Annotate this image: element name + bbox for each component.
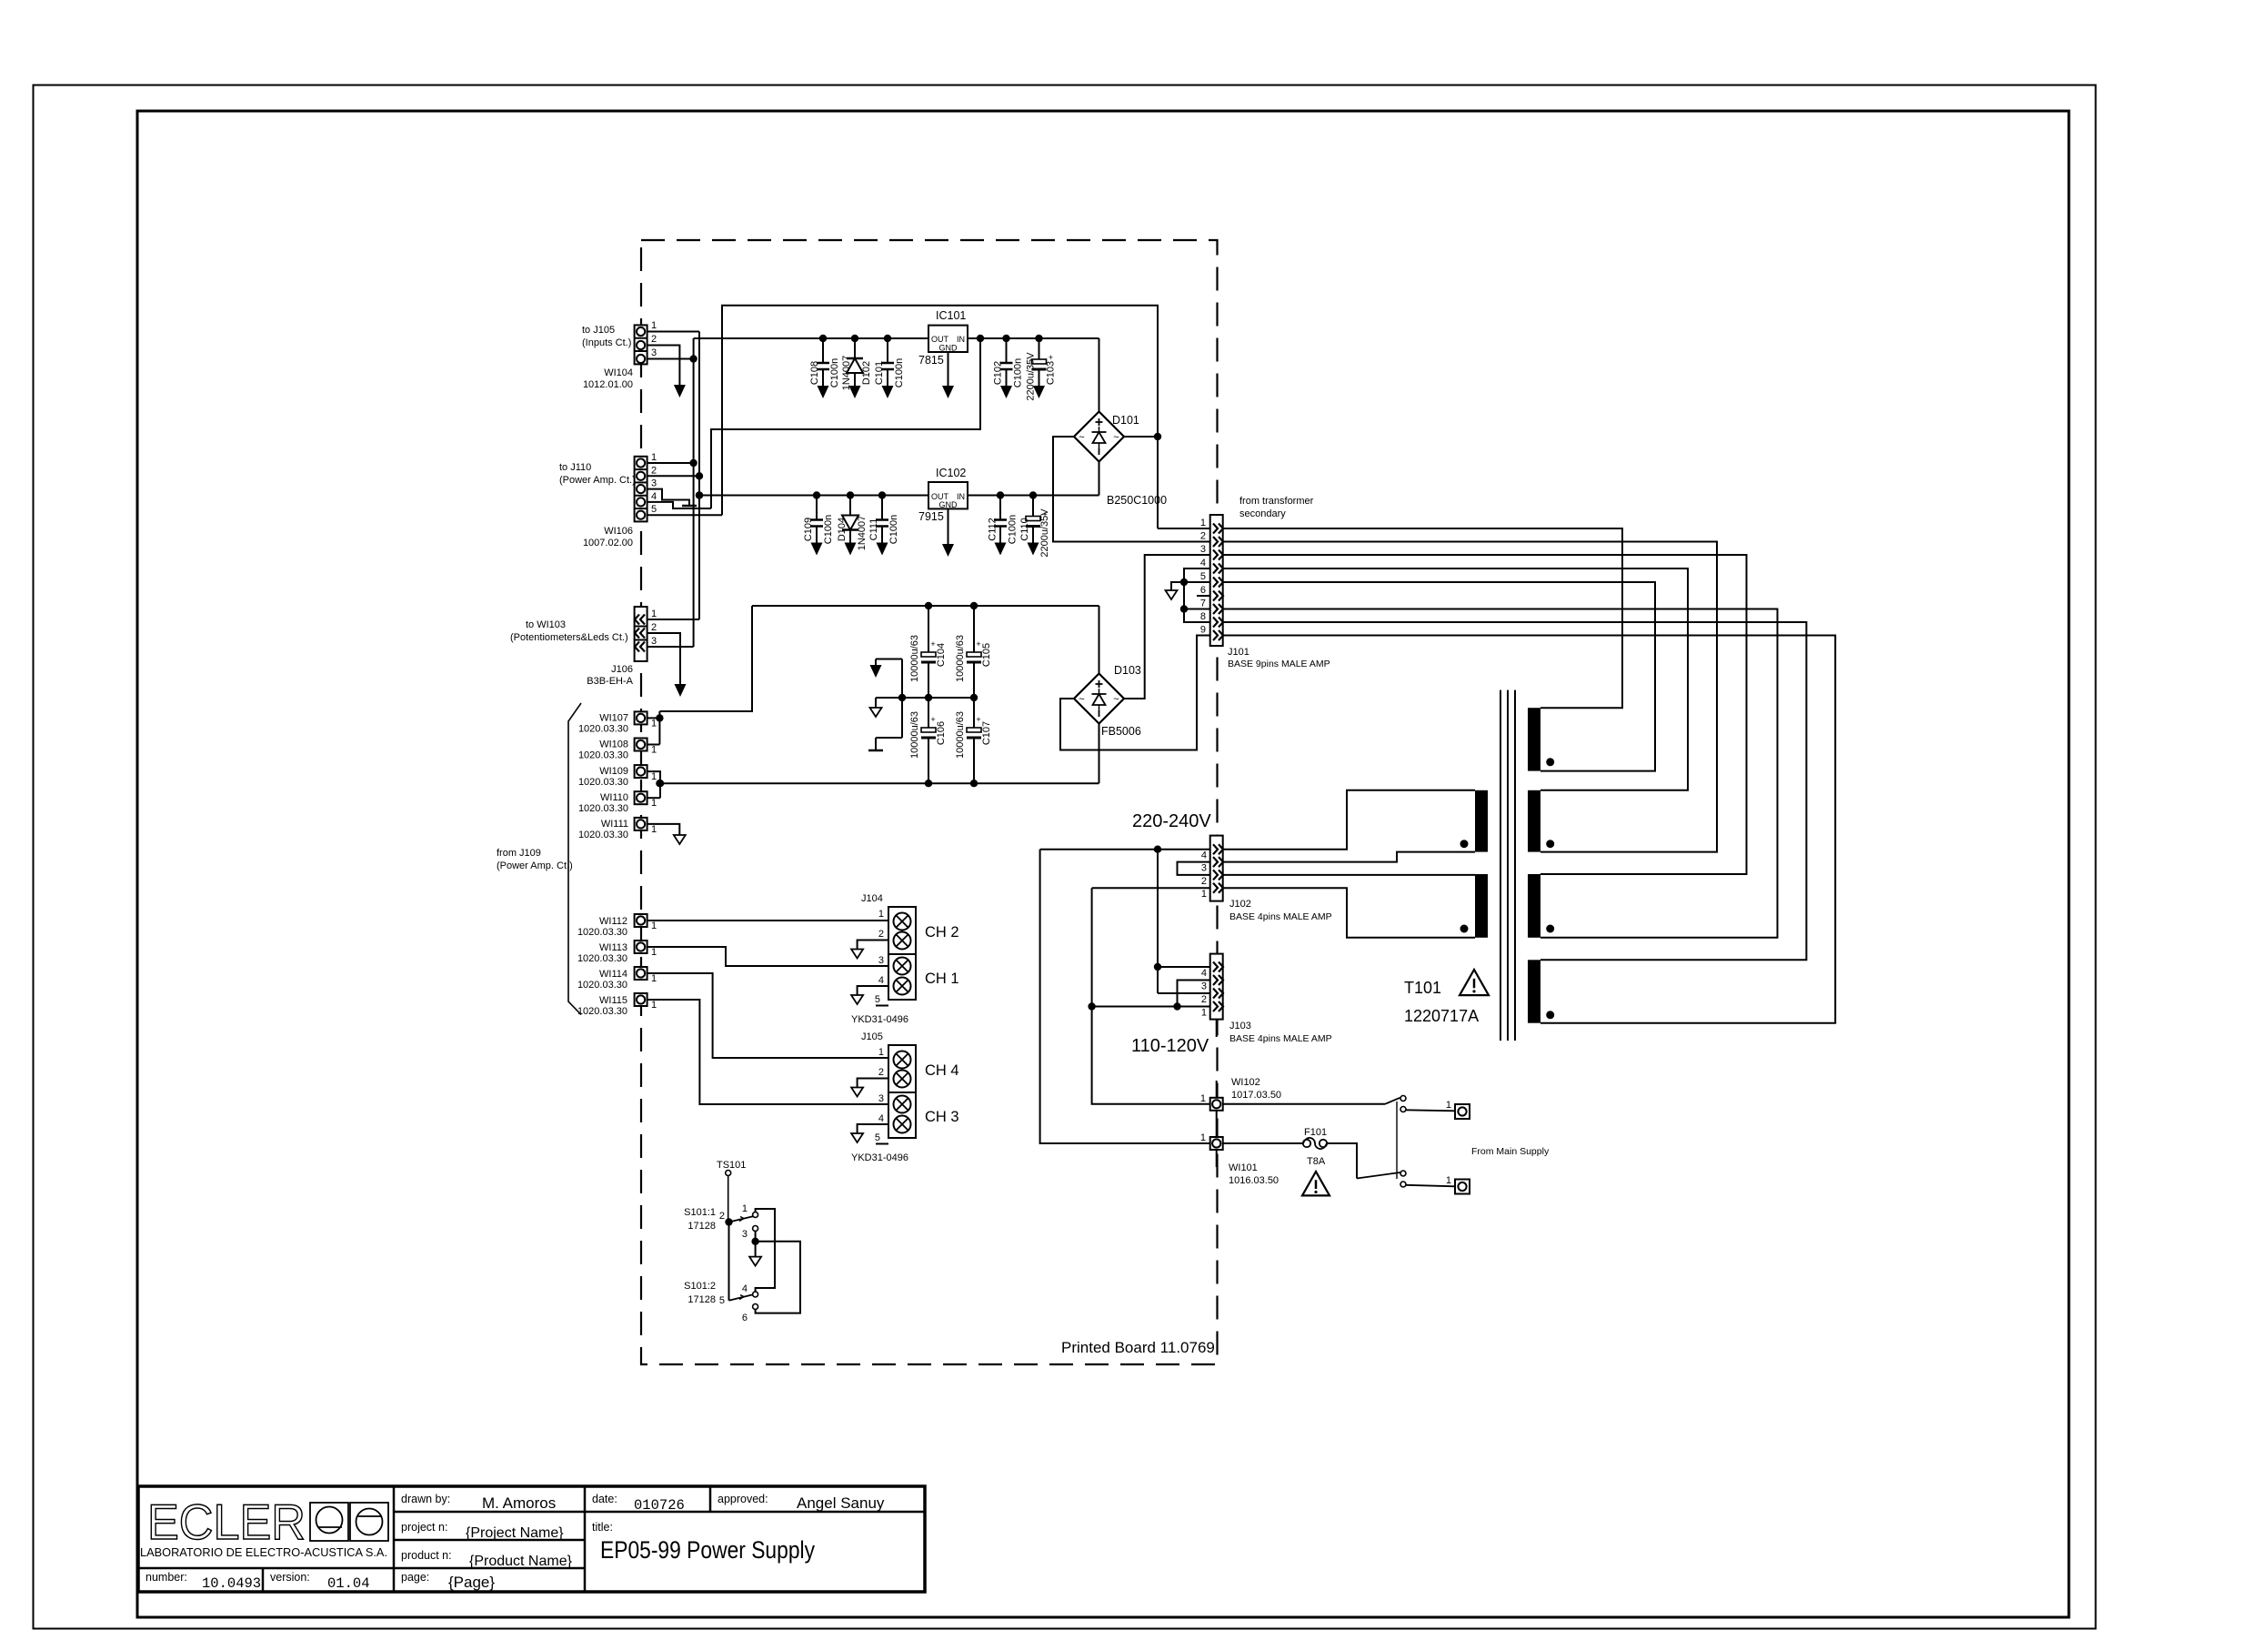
svg-text:+: + xyxy=(1049,353,1053,362)
svg-text:1: 1 xyxy=(651,973,657,984)
svg-text:J105: J105 xyxy=(861,1031,883,1042)
capacitor C105 10000u/63 xyxy=(973,606,975,656)
svg-text:5: 5 xyxy=(875,994,880,1005)
transformer T101 core xyxy=(1500,690,1501,1041)
title block frame xyxy=(138,1486,925,1592)
svg-text:1: 1 xyxy=(651,452,657,463)
svg-text:4: 4 xyxy=(878,1113,884,1124)
connector WI111 1020.03.30 xyxy=(635,818,647,830)
svg-text:10000u/63: 10000u/63 xyxy=(955,635,966,682)
svg-text:C104: C104 xyxy=(936,643,947,667)
wire J105 pin5 stub xyxy=(876,1143,888,1145)
connector WI108 1020.03.30 xyxy=(635,739,647,751)
ground open arrow WI111 xyxy=(674,835,686,844)
wire J102 pin3-pin2 loop xyxy=(1178,862,1210,875)
wire WI112 to J104 pin1 xyxy=(647,920,888,921)
connector J103 BASE 4pins MALE AMP xyxy=(1210,954,1223,1020)
svg-text:BASE 9pins MALE AMP: BASE 9pins MALE AMP xyxy=(1228,659,1330,669)
svg-text:EP05-99 Power Supply: EP05-99 Power Supply xyxy=(600,1536,815,1564)
junction dot J102 pin4 selector xyxy=(1154,846,1161,853)
transformer T101 secondary winding R4 xyxy=(1528,960,1540,1022)
connector WI109 1020.03.30 xyxy=(635,765,647,778)
svg-text:8: 8 xyxy=(1200,611,1206,622)
ground arrow IC102 xyxy=(942,544,954,557)
svg-text:3: 3 xyxy=(742,1229,748,1240)
svg-text:C109: C109 xyxy=(803,518,814,541)
wire J104 pin2 to ground xyxy=(858,941,888,951)
svg-text:approved:: approved: xyxy=(718,1493,768,1505)
warning triangle T101 xyxy=(1460,970,1489,995)
svg-text:2: 2 xyxy=(1201,994,1207,1005)
wire S101 junction to ground xyxy=(755,1242,757,1256)
svg-text:{Page}: {Page} xyxy=(448,1574,495,1591)
junction dots top bus xyxy=(925,602,932,609)
capacitor C110 2200u/35V xyxy=(1032,496,1034,520)
connector WI104 (to J105) xyxy=(635,325,647,364)
svg-text:C100n: C100n xyxy=(829,358,840,387)
capacitor C107 10000u/63 xyxy=(973,698,975,731)
svg-text:Angel Sanuy: Angel Sanuy xyxy=(797,1494,885,1512)
wire J101 pin3 to transformer R3 top xyxy=(1223,555,1747,874)
switch S101:1 17128 xyxy=(725,1218,732,1225)
transformer T101 primary winding L2 xyxy=(1475,874,1488,938)
svg-text:10.0493: 10.0493 xyxy=(202,1575,261,1592)
wire J104 pin5 stub xyxy=(876,1005,888,1007)
junction dot S101 contact3 xyxy=(751,1238,758,1245)
svg-text:J101: J101 xyxy=(1228,647,1249,658)
svg-text:3: 3 xyxy=(1201,863,1207,874)
junction dots mid bus xyxy=(898,694,906,701)
svg-text:WI104: WI104 xyxy=(604,367,633,378)
junction dot WI106 pin1 xyxy=(689,459,697,467)
svg-text:secondary: secondary xyxy=(1239,508,1286,519)
polarity dot R4 xyxy=(1546,1011,1554,1019)
svg-text:GND: GND xyxy=(939,500,958,509)
junction dot WI107 xyxy=(656,714,663,721)
wire D103 AC right to J101 pin3 xyxy=(1124,555,1210,699)
svg-text:WI112: WI112 xyxy=(599,916,627,927)
wire S101 contact1 to contact4 loop xyxy=(756,1209,775,1292)
svg-text:C110: C110 xyxy=(1019,518,1030,540)
svg-text:J106: J106 xyxy=(611,664,633,675)
capacitor C101 100n xyxy=(887,338,888,363)
svg-text:4: 4 xyxy=(742,1283,748,1294)
svg-text:IC102: IC102 xyxy=(936,467,966,479)
wire J101 pin4/pin8 bracket xyxy=(1184,568,1210,622)
svg-text:1020.03.30: 1020.03.30 xyxy=(578,723,628,734)
svg-text:CH 4: CH 4 xyxy=(925,1062,959,1079)
junction dot D101 AC right xyxy=(1154,433,1161,440)
wire WI107 net to cap bank top bus xyxy=(659,606,752,711)
svg-text:2: 2 xyxy=(1200,531,1206,542)
wire J105 pin2 to ground xyxy=(858,1079,888,1090)
svg-text:1020.03.30: 1020.03.30 xyxy=(577,953,627,964)
svg-text:C100n: C100n xyxy=(823,515,834,544)
svg-text:J104: J104 xyxy=(861,893,883,904)
svg-text:3: 3 xyxy=(1200,544,1206,555)
capacitor C103 2200u/35V xyxy=(1039,338,1040,363)
svg-text:4: 4 xyxy=(1201,850,1207,861)
svg-text:~: ~ xyxy=(1113,694,1119,705)
junction dot J103 pin4 xyxy=(1154,963,1161,971)
wire WI102 to mains switch xyxy=(1223,1103,1385,1105)
svg-text:4: 4 xyxy=(1201,968,1207,979)
wire IC102 GND to ground xyxy=(948,508,949,544)
svg-text:1020.03.30: 1020.03.30 xyxy=(577,980,627,991)
wire WI114 to J105 pin1 xyxy=(647,973,888,1058)
svg-text:110-120V: 110-120V xyxy=(1131,1036,1209,1056)
printed board dashed outline 11.0769 xyxy=(641,240,1218,1364)
svg-text:page:: page: xyxy=(401,1571,429,1584)
svg-text:1: 1 xyxy=(1200,518,1206,528)
svg-text:TS101: TS101 xyxy=(717,1160,746,1171)
wire WI106 pin3 to signal ground xyxy=(647,489,689,506)
svg-text:S101:2: S101:2 xyxy=(684,1281,716,1292)
ground open arrow S101 xyxy=(749,1257,761,1266)
wire J101 pin9 to transformer R4 bottom xyxy=(1223,636,1836,1023)
svg-text:3: 3 xyxy=(878,1093,884,1104)
svg-text:1: 1 xyxy=(651,718,657,729)
svg-text:1N4007: 1N4007 xyxy=(841,356,852,391)
svg-text:5: 5 xyxy=(719,1295,725,1306)
svg-text:C100n: C100n xyxy=(1013,358,1024,387)
wire J101 pin4 to transformer R2 top xyxy=(1223,568,1688,790)
svg-text:+: + xyxy=(930,639,935,649)
ground open arrow J101 pin5 xyxy=(1166,590,1178,599)
mains switch lower pole xyxy=(1357,1172,1400,1179)
polarity dot L1 xyxy=(1460,840,1469,848)
svg-text:+: + xyxy=(976,715,980,724)
svg-text:17128: 17128 xyxy=(687,1221,716,1232)
switch S101:2 17128 xyxy=(728,1222,730,1301)
svg-text:C107: C107 xyxy=(981,721,992,745)
svg-text:C111: C111 xyxy=(868,518,879,541)
svg-text:IN: IN xyxy=(957,335,965,344)
svg-text:(Power Amp. Ct.): (Power Amp. Ct.) xyxy=(497,860,573,871)
svg-text:2: 2 xyxy=(651,465,657,476)
svg-text:17128: 17128 xyxy=(687,1294,716,1305)
wire J101 pin6 stub xyxy=(1197,595,1210,597)
svg-text:1007.02.00: 1007.02.00 xyxy=(583,538,633,548)
junction dots J103 pin1 net xyxy=(1173,1002,1180,1010)
wire WI104 pin1 to -V net xyxy=(647,331,699,333)
svg-text:10000u/63: 10000u/63 xyxy=(955,711,966,759)
svg-text:1: 1 xyxy=(1201,1008,1207,1019)
transformer T101 secondary winding R1 xyxy=(1528,708,1540,770)
svg-text:1: 1 xyxy=(651,609,657,619)
svg-text:1: 1 xyxy=(651,921,657,931)
ground open arrow J104 pin2 xyxy=(851,950,863,959)
svg-text:to WI103: to WI103 xyxy=(526,619,566,630)
wire WI108 pin xyxy=(647,744,660,746)
svg-text:3: 3 xyxy=(878,955,884,966)
wire mid-bus ground branch xyxy=(901,659,903,739)
svg-text:1020.03.30: 1020.03.30 xyxy=(577,1006,627,1017)
svg-text:10000u/63: 10000u/63 xyxy=(909,711,920,759)
wire J101 pin5 to ground xyxy=(1171,582,1210,591)
wire stub below WI101 xyxy=(1216,1150,1218,1167)
fuse F101 T8A xyxy=(1303,1140,1310,1147)
svg-text:WI113: WI113 xyxy=(599,942,627,953)
svg-text:1: 1 xyxy=(651,745,657,756)
voltage regulator IC101 7815 xyxy=(928,326,968,352)
svg-text:1: 1 xyxy=(878,1047,884,1058)
svg-text:1: 1 xyxy=(651,771,657,782)
wire J105 pin4 to ground xyxy=(858,1124,888,1135)
wire S101 contact3 to junction xyxy=(755,1232,757,1242)
svg-text:(Inputs Ct.): (Inputs Ct.) xyxy=(582,337,631,348)
wire J103 pin1 xyxy=(1092,1006,1210,1008)
wire J101 pin8 to transformer R4 top xyxy=(1223,622,1807,960)
bridge rectifier D103 FB5006 xyxy=(1074,674,1124,724)
svg-text:(Potentiometers&Leds Ct.): (Potentiometers&Leds Ct.) xyxy=(510,632,628,643)
svg-text:BASE 4pins MALE AMP: BASE 4pins MALE AMP xyxy=(1229,911,1332,922)
svg-text:10000u/63: 10000u/63 xyxy=(909,635,920,682)
svg-text:C100n: C100n xyxy=(1008,515,1019,544)
wire D101 plus feed xyxy=(1099,338,1100,412)
svg-text:M. Amoros: M. Amoros xyxy=(482,1494,556,1512)
svg-text:1220717A: 1220717A xyxy=(1404,1007,1479,1025)
svg-text:From Main Supply: From Main Supply xyxy=(1471,1146,1550,1157)
svg-text:1: 1 xyxy=(651,824,657,835)
mains switch link xyxy=(1396,1102,1398,1179)
svg-text:1020.03.30: 1020.03.30 xyxy=(578,803,628,814)
junction dot WI109 net xyxy=(657,780,664,787)
svg-text:4: 4 xyxy=(651,491,657,502)
svg-text:3: 3 xyxy=(651,347,657,358)
svg-text:2: 2 xyxy=(651,334,657,345)
wire D103 AC left to J101 pin9 xyxy=(1060,636,1210,750)
connector WI112 1020.03.30 xyxy=(635,914,647,927)
svg-text:drawn by:: drawn by: xyxy=(401,1493,450,1505)
capacitor C112 100n xyxy=(999,496,1001,520)
transformer T101 secondary winding R3 xyxy=(1528,874,1540,938)
connector WI102 1017.03.50 xyxy=(1210,1098,1223,1111)
svg-text:4: 4 xyxy=(878,975,884,986)
svg-text:from transformer: from transformer xyxy=(1239,496,1314,507)
wire J102 pin1 selector xyxy=(1092,887,1210,889)
terminal block J104 YKD31-0496 xyxy=(888,907,916,954)
svg-text:{Project Name}: {Project Name} xyxy=(466,1525,564,1541)
wire J101 pin1 to transformer R1 top xyxy=(1223,528,1622,708)
svg-text:WI106: WI106 xyxy=(604,526,633,537)
svg-text:5: 5 xyxy=(875,1132,880,1143)
svg-text:J102: J102 xyxy=(1229,899,1251,910)
ground arrow IC101 xyxy=(942,386,954,398)
bracket from J109 (Power Amp. Ct.) xyxy=(568,703,581,1015)
wire WI115 to J105 pin3 xyxy=(647,1000,888,1104)
svg-text:CH 1: CH 1 xyxy=(925,971,959,987)
wire fuse to mains switch lower pole xyxy=(1327,1143,1357,1179)
svg-text:~: ~ xyxy=(1079,432,1084,443)
svg-text:D101: D101 xyxy=(1112,414,1139,427)
wire WI113 to J104 pin3 xyxy=(647,947,888,966)
svg-text:B250C1000: B250C1000 xyxy=(1107,494,1167,507)
svg-text:D103: D103 xyxy=(1114,664,1141,677)
vertical net x=762.6 xyxy=(693,338,695,647)
connector WI106 (to J110) xyxy=(635,457,647,522)
svg-text:01.04: 01.04 xyxy=(327,1575,370,1592)
svg-text:date:: date: xyxy=(592,1493,617,1505)
svg-text:WI109: WI109 xyxy=(599,766,628,777)
svg-text:7: 7 xyxy=(1200,599,1206,609)
svg-text:2: 2 xyxy=(1201,876,1207,887)
wire cap bank bottom bus xyxy=(659,782,1099,784)
signal ground bar on cap bank lower xyxy=(875,738,877,750)
wire J104 pin4 to ground xyxy=(858,986,888,997)
junction dots J101 pin5 pin7 xyxy=(1180,579,1188,586)
svg-text:1: 1 xyxy=(1200,1093,1206,1104)
inner sheet border xyxy=(137,111,2069,1617)
svg-text:2: 2 xyxy=(719,1211,725,1222)
wire WI106 pin5 xyxy=(647,514,722,516)
ground open arrow J105 pin4 xyxy=(851,1133,863,1142)
transformer T101 secondary winding R2 xyxy=(1528,790,1540,852)
svg-text:WI114: WI114 xyxy=(599,969,627,980)
ground open arrow J105 pin2 xyxy=(851,1088,863,1097)
wire selector vertical x=1143.6 to WI101 xyxy=(1040,850,1210,1143)
connector WI110 1020.03.30 xyxy=(635,791,647,804)
capacitor C102 100n xyxy=(1006,338,1008,363)
svg-text:1020.03.30: 1020.03.30 xyxy=(577,927,627,938)
svg-text:6: 6 xyxy=(742,1313,748,1323)
wire J102 pin2 to L2 top xyxy=(1223,874,1475,876)
wire WI106 pin4 xyxy=(647,502,711,508)
svg-text:2: 2 xyxy=(878,929,884,940)
diode D102 1N4007 xyxy=(854,338,856,358)
wire J101 pin5 to transformer R1 bottom xyxy=(1223,582,1655,771)
wire D101 minus to IC102 rail xyxy=(1099,462,1100,496)
title block vertical dividers xyxy=(393,1486,396,1592)
wire S101 contact3 to contact6 loop xyxy=(756,1242,800,1313)
polarity dot L2 xyxy=(1460,925,1469,933)
wire loop WI106 pin4 to IN rail xyxy=(711,338,980,508)
svg-text:product n:: product n: xyxy=(401,1549,452,1562)
mains terminal lower xyxy=(1455,1180,1470,1194)
svg-text:C102: C102 xyxy=(993,361,1004,385)
wire WI107 pin to junction xyxy=(647,717,660,719)
svg-text:D102: D102 xyxy=(861,361,872,385)
svg-text:1: 1 xyxy=(651,1000,657,1011)
wire D101 AC left to J101 pin2 xyxy=(1053,437,1210,542)
wire selector vertical x=1200.6 to WI102 xyxy=(1092,888,1210,1104)
svg-text:~: ~ xyxy=(1079,694,1084,705)
wire WI111 pin to ground xyxy=(647,824,680,835)
svg-text:3: 3 xyxy=(651,636,657,647)
svg-text:J103: J103 xyxy=(1229,1021,1251,1031)
svg-text:1: 1 xyxy=(878,909,884,920)
svg-text:1: 1 xyxy=(1446,1100,1451,1111)
svg-text:7915: 7915 xyxy=(918,510,944,523)
wire J106 pin1 xyxy=(647,619,699,620)
svg-text:1N4007: 1N4007 xyxy=(857,516,868,551)
svg-text:5: 5 xyxy=(651,504,657,515)
wire J102 pin4 selector xyxy=(1040,849,1210,850)
svg-text:C100n: C100n xyxy=(894,358,905,387)
svg-text:(Power Amp. Ct.): (Power Amp. Ct.) xyxy=(559,475,636,486)
svg-text:YKD31-0496: YKD31-0496 xyxy=(851,1014,908,1025)
capacitor C106 10000u/63 xyxy=(928,698,929,731)
svg-text:Printed Board 11.0769: Printed Board 11.0769 xyxy=(1061,1339,1215,1356)
vertical net x=769 xyxy=(698,332,700,620)
svg-text:D104: D104 xyxy=(837,518,848,541)
svg-text:CH 2: CH 2 xyxy=(925,924,959,941)
wire TS101 to S101:1 pole xyxy=(728,1176,729,1221)
svg-text:~: ~ xyxy=(1113,432,1119,443)
wire WI107/WI108 vertical xyxy=(658,711,660,745)
wire WI109 pin to bottom bus xyxy=(647,771,660,798)
svg-text:project n:: project n: xyxy=(401,1521,447,1534)
svg-text:1: 1 xyxy=(651,947,657,958)
svg-text:1016.03.50: 1016.03.50 xyxy=(1229,1175,1279,1186)
wire WI106 pin1 xyxy=(647,462,694,464)
wire top loop WI106 pin5 to D101 AC xyxy=(722,306,1158,528)
title block horizontal dividers xyxy=(394,1511,925,1514)
mains terminal upper xyxy=(1455,1104,1470,1119)
svg-text:IC101: IC101 xyxy=(936,309,966,322)
supply arrow on cap bank upper xyxy=(875,659,877,666)
svg-text:1: 1 xyxy=(1200,1132,1206,1143)
wire D101 AC right to junction xyxy=(1124,436,1158,438)
svg-text:title:: title: xyxy=(592,1521,613,1534)
junction dots on IC101 rail xyxy=(819,335,827,342)
wire WI106 pin2 xyxy=(647,475,699,477)
ground arrow WI104 pin2 xyxy=(674,385,686,397)
svg-text:2200u/35V: 2200u/35V xyxy=(1039,508,1050,558)
wire WI104 pin3 to +V rail net xyxy=(647,358,694,360)
wire J106 pin2 to ground xyxy=(647,633,680,684)
svg-text:7815: 7815 xyxy=(918,354,944,367)
polarity dot R2 xyxy=(1546,840,1554,848)
junction dots on IC102 rail xyxy=(813,491,820,498)
polarity dot R1 xyxy=(1546,758,1554,766)
connector WI113 1020.03.30 xyxy=(635,941,647,953)
svg-text:3: 3 xyxy=(651,478,657,489)
svg-text:WI101: WI101 xyxy=(1229,1162,1258,1173)
svg-text:WI108: WI108 xyxy=(599,739,628,750)
capacitor C104 10000u/63 xyxy=(928,606,929,656)
wire D103 plus to cap bank top bus xyxy=(1099,606,1100,674)
svg-text:version:: version: xyxy=(270,1571,310,1584)
svg-text:C100n: C100n xyxy=(888,515,899,544)
svg-text:C108: C108 xyxy=(809,361,820,385)
svg-text:2: 2 xyxy=(651,622,657,633)
svg-text:WI102: WI102 xyxy=(1231,1077,1260,1088)
svg-text:9: 9 xyxy=(1200,625,1206,636)
svg-text:4: 4 xyxy=(1200,558,1206,568)
bridge rectifier D101 B250C1000 xyxy=(1074,412,1124,462)
wire -V rail (IC102 row) left segment xyxy=(699,495,928,497)
transformer T101 primary winding L1 xyxy=(1475,790,1488,852)
svg-text:IN: IN xyxy=(957,492,965,501)
svg-text:5: 5 xyxy=(1200,571,1206,582)
wire J101 pin7 xyxy=(1184,609,1210,610)
connector J101 BASE 9pins MALE AMP xyxy=(1210,515,1223,646)
junction dot WI104 pin3 xyxy=(689,355,697,362)
wire J101 pin2 to transformer R2 bottom xyxy=(1223,542,1717,852)
svg-text:+: + xyxy=(976,639,980,649)
svg-text:C112: C112 xyxy=(988,518,999,540)
svg-text:CH 3: CH 3 xyxy=(925,1109,959,1125)
junction dots bottom bus xyxy=(925,780,932,787)
wire switch to mains terminal lower xyxy=(1406,1185,1455,1187)
capacitor C111 100n xyxy=(881,496,883,520)
ground arrow J106 pin2 xyxy=(675,684,687,697)
wire -V rail (IC102 row) right segment xyxy=(968,495,1099,497)
wire J101 pin1 left xyxy=(1158,528,1210,529)
svg-text:2: 2 xyxy=(878,1067,884,1078)
wire IC101 GND to ground xyxy=(948,352,949,386)
